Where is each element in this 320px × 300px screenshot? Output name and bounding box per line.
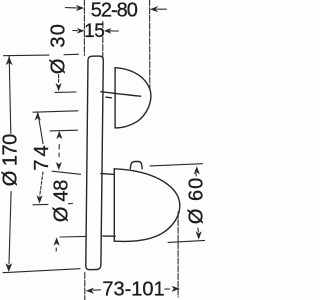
bottom knob base line	[113, 169, 115, 241]
bottom knob top lug/bump	[130, 161, 142, 168]
O60 bottom extension line	[168, 240, 205, 242]
extension line y=92 (O30 lower)	[55, 91, 76, 93]
extension line y=111 (74 upper)	[33, 111, 78, 112]
extension line y=204 (74 lower)	[33, 203, 48, 205]
svg-text:Ø 60: Ø 60	[186, 177, 206, 224]
O60 top extension line	[150, 164, 203, 166]
svg-text:52-80: 52-80	[91, 0, 138, 22]
top knob stem/grip line	[101, 92, 141, 97]
O48 middle arrowhead (points down)	[56, 162, 62, 170]
svg-text:15: 15	[84, 21, 104, 42]
O60 top arrowhead (points up)	[194, 166, 200, 174]
svg-text:74: 74	[31, 142, 53, 170]
dim 52-80 right tail	[158, 8, 167, 10]
bottom knob tip extension line (dashed)	[177, 212, 179, 297]
extension line y=204 right dash	[69, 203, 73, 205]
bottom knob stem bottom line	[103, 235, 115, 237]
svg-text:Ø 170: Ø 170	[0, 134, 22, 186]
O48 upper arrowhead (points up)	[56, 131, 62, 139]
dim line O60 upper segment	[195, 174, 197, 177]
15 right arrowhead (points left)	[104, 28, 112, 34]
O170 top arrowhead (points up)	[6, 56, 13, 65]
bottom knob dome outline (volume handle, O60)	[114, 169, 180, 242]
dim line O30	[58, 75, 60, 85]
bottom extension line at plate bottom	[3, 269, 80, 273]
wall escutcheon plate (side view, O170)	[86, 56, 104, 270]
top extension line at plate top	[4, 54, 50, 57]
svg-text:73-101: 73-101	[102, 278, 164, 300]
top knob base line	[114, 68, 116, 128]
73-101 left arrowhead (points left)	[86, 288, 94, 294]
O60 bottom arrowhead (points down)	[196, 231, 202, 239]
top knob stem lower dash	[106, 96, 112, 99]
dim line O48 middle segment	[58, 145, 60, 150]
top knob tip extension line (dashed)	[149, 0, 151, 89]
plate front face extension line (dashed)	[102, 22, 104, 59]
top knob dome outline (temperature handle)	[115, 68, 151, 128]
dim line O170 upper segment	[9, 57, 11, 134]
dim line 74 upper segment	[38, 113, 43, 144]
bottom knob stem top line	[101, 173, 114, 176]
wall plane extension line (top, dashed)	[83, 0, 85, 56]
dim line O48 lower tail	[55, 248, 57, 251]
dim 15 left tail	[73, 30, 78, 32]
dim 73-101 right tail	[165, 288, 170, 290]
extension line y=171 (knob shoulder)	[52, 171, 81, 174]
dim 73-101 left tail	[93, 289, 101, 291]
dim 15 right tail	[110, 30, 119, 32]
74 top arrowhead (points up)	[35, 112, 41, 120]
dim line O170 lower segment	[9, 192, 11, 265]
extension line y=130	[50, 129, 78, 132]
dim line 74 lower segment	[40, 172, 43, 196]
O170 bottom arrowhead (points down)	[5, 263, 12, 272]
svg-text:Ø 48: Ø 48	[51, 180, 73, 222]
73-101 right arrowhead (points right)	[172, 286, 180, 292]
svg-text:Ø 30: Ø 30	[48, 23, 70, 74]
52-80 left arrowhead (points right)	[76, 5, 84, 11]
O48 lower arrowhead (points up)	[54, 237, 60, 245]
O30 bottom arrowhead (points down)	[56, 83, 62, 91]
15 left arrowhead (points right)	[77, 28, 85, 34]
dim 52-80 left tail	[66, 7, 78, 9]
52-80 right arrowhead (points left)	[150, 6, 158, 12]
top extension line right segment	[64, 53, 79, 55]
wall plane extension line (bottom, dashed)	[84, 273, 86, 300]
extension line y=236 (O48 lower)	[60, 235, 86, 238]
dim line O60 lower segment	[197, 228, 200, 232]
74 bottom arrowhead (points down)	[36, 195, 42, 203]
